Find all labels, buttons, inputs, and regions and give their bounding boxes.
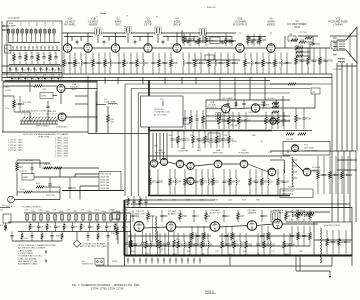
- tuning slug SL3: [28, 117, 31, 121]
- switch contact: [53, 33, 55, 42]
- label row sound strip: [25, 210, 129, 214]
- capacitor C58: [194, 178, 197, 185]
- capacitor C34: [312, 57, 315, 64]
- svg-text:VOLTAGES AT 117V AC: VOLTAGES AT 117V AC: [18, 255, 42, 258]
- wire: [8, 221, 131, 223]
- wire: [14, 199, 60, 201]
- tuner component: [18, 77, 20, 81]
- left strip labels: [0, 210, 4, 228]
- resistor R7: [205, 36, 208, 43]
- tuner coil L7: [35, 30, 38, 34]
- svg-text:5: 5: [23, 45, 24, 47]
- wire: [128, 235, 211, 237]
- disc element E5: [54, 215, 57, 220]
- svg-text:10: 10: [12, 53, 14, 55]
- resistor R33: [13, 101, 16, 108]
- svg-text:220: 220: [19, 74, 22, 76]
- inductor L15: [292, 157, 294, 187]
- svg-text:1K: 1K: [180, 139, 183, 141]
- wire: [131, 203, 350, 205]
- tuning slug SL5: [34, 117, 37, 121]
- capacitor C27: [199, 60, 202, 67]
- wire: [337, 65, 357, 67]
- tube V8: [57, 85, 65, 93]
- wire: [208, 36, 232, 38]
- wire: [32, 191, 60, 193]
- svg-text:L24: L24: [312, 91, 315, 93]
- svg-text:.05: .05: [46, 78, 49, 80]
- label V18 6AQ5: [209, 209, 221, 214]
- svg-text:T2: T2: [126, 16, 128, 18]
- wire: [311, 170, 318, 172]
- tuning slug SL7: [40, 117, 43, 121]
- svg-text:ION TRAP: ION TRAP: [333, 68, 343, 71]
- antenna terminal: [3, 25, 5, 27]
- svg-text:VERT HOLD: VERT HOLD: [282, 191, 294, 193]
- bus to sync: [62, 190, 124, 192]
- svg-text:.01: .01: [116, 227, 119, 229]
- resistor R21: [170, 60, 173, 67]
- tube V11: [251, 104, 259, 112]
- resistor R31: [291, 39, 298, 41]
- resistor R4: [49, 55, 52, 61]
- capacitor C85: [125, 240, 128, 247]
- wire: [152, 47, 173, 49]
- svg-text:T3: T3: [156, 17, 158, 19]
- wire: [20, 123, 58, 125]
- audio labels: [128, 236, 181, 251]
- svg-text:R43: R43: [46, 211, 50, 213]
- hatch component: [133, 258, 135, 264]
- small box cluster: [184, 118, 190, 124]
- wire: [202, 36, 204, 43]
- resistor R64: [184, 178, 187, 185]
- resistor R82: [177, 241, 180, 248]
- resistor R112: [80, 224, 83, 229]
- wire: [275, 47, 292, 49]
- capacitor C56: [221, 136, 224, 143]
- capacitor C46: [270, 117, 273, 124]
- svg-text:1K: 1K: [208, 216, 211, 218]
- tuner coil L10: [48, 30, 51, 34]
- wire: [181, 78, 183, 85]
- vert osc box: [280, 189, 313, 198]
- svg-text:.01: .01: [27, 74, 30, 76]
- wire: [0, 207, 10, 209]
- capacitor C95: [30, 234, 33, 239]
- wire: [270, 150, 356, 152]
- svg-text:470K: 470K: [198, 141, 203, 143]
- tuner coil L4: [21, 30, 24, 34]
- resistor R118: [97, 234, 100, 239]
- wire: [107, 242, 109, 266]
- ground: [45, 250, 48, 253]
- wire: [75, 95, 88, 97]
- sound strip row2: [29, 222, 31, 224]
- resistor R56: [298, 133, 306, 135]
- tuner component: [52, 67, 54, 72]
- wire: [219, 78, 221, 101]
- inductor L7: [215, 60, 216, 67]
- wire: [246, 36, 266, 38]
- resistor R37: [54, 167, 62, 169]
- svg-text:470: 470: [43, 74, 46, 76]
- svg-text:C1: C1: [20, 25, 22, 27]
- svg-text:0000 000: 0000 000: [101, 182, 111, 184]
- capacitor C50: [274, 102, 277, 106]
- capacitor C71: [256, 241, 259, 248]
- sync coupling box: [208, 133, 220, 142]
- resistor R50: [288, 83, 296, 85]
- wire: [96, 265, 125, 267]
- resistor R32: [305, 37, 312, 39]
- wire: [29, 82, 31, 92]
- switch contact: [26, 33, 28, 42]
- resistor R99: [297, 233, 300, 240]
- svg-text:AUDIO OUT: AUDIO OUT: [209, 211, 221, 214]
- wire: [15, 162, 50, 164]
- wire: [142, 78, 144, 85]
- wire: [104, 78, 106, 85]
- resistor R55: [286, 133, 294, 135]
- wire: [351, 63, 353, 151]
- resistor R63: [169, 178, 172, 185]
- coupling capacitor C13: [229, 41, 232, 43]
- resistor R59: [204, 136, 207, 143]
- wire: [298, 35, 318, 37]
- svg-text:RECTIFIER: RECTIFIER: [273, 212, 284, 214]
- restorer labels: [296, 46, 306, 62]
- svg-text:SEE PAGE 12 FOR: SEE PAGE 12 FOR: [18, 260, 38, 263]
- wire: [175, 226, 211, 228]
- resistor R35: [16, 164, 19, 171]
- deflection yoke plug: [271, 211, 280, 222]
- inductor L20: [150, 241, 151, 248]
- peaking coil box: [205, 55, 214, 60]
- svg-text:R55: R55: [154, 146, 157, 148]
- svg-text:C58: C58: [24, 238, 28, 240]
- resistor R14: [63, 60, 66, 67]
- svg-text:9: 9: [42, 114, 43, 116]
- tube V7: [267, 44, 275, 52]
- label V3B: [70, 84, 78, 91]
- svg-text:IF OUTPUT: IF OUTPUT: [233, 23, 247, 27]
- resistor R3: [37, 55, 40, 61]
- label V9B: [238, 150, 250, 155]
- inductor L24: [270, 241, 271, 248]
- label V15: [328, 17, 348, 27]
- wire: [16, 174, 18, 196]
- wire: [59, 187, 61, 200]
- label HORIZ AFC: [56, 126, 68, 129]
- svg-text:R49: R49: [88, 211, 92, 213]
- wire: [295, 256, 297, 272]
- tuner coil L2: [12, 30, 15, 34]
- resistor R40: [107, 115, 110, 122]
- svg-text:WIDTH: WIDTH: [288, 187, 295, 189]
- resistor R58: [192, 136, 195, 143]
- resistor R49: [263, 102, 266, 106]
- capacitor C84: [344, 239, 347, 246]
- inductor L1: [338, 58, 345, 59]
- trap L24: [311, 88, 320, 94]
- tuner component: [31, 77, 33, 81]
- inductor L13: [236, 178, 237, 185]
- label T3: [280, 158, 283, 160]
- wire: [195, 78, 197, 85]
- label V13 damper: [312, 167, 321, 172]
- wire: [303, 51, 310, 53]
- svg-text:NOTE: ALL: NOTE: ALL: [154, 108, 165, 111]
- wire: [88, 133, 149, 135]
- disc element E2: [33, 215, 36, 220]
- svg-text:470K: 470K: [20, 189, 25, 191]
- coupling capacitor C6: [76, 41, 79, 43]
- wire: [24, 212, 131, 214]
- svg-text:8: 8: [39, 114, 40, 116]
- wire: [75, 103, 88, 105]
- capacitor C42: [195, 116, 198, 123]
- svg-text:4.5MC TRAP: 4.5MC TRAP: [104, 101, 116, 104]
- trap box: [40, 93, 53, 99]
- wire: [147, 33, 149, 44]
- wire: [162, 101, 164, 107]
- sound takeoff box: [22, 174, 34, 181]
- capacitor C16: [188, 36, 191, 43]
- tube V17: [187, 162, 194, 169]
- svg-text:100K: 100K: [232, 141, 237, 143]
- wire: [2, 80, 97, 82]
- wire: [192, 59, 240, 61]
- tube V27: [273, 219, 283, 229]
- wire: [4, 29, 9, 31]
- svg-text:R80 1M: R80 1M: [143, 246, 151, 248]
- wire: [349, 151, 351, 222]
- wire: [336, 63, 338, 151]
- capacitor C63: [144, 199, 147, 205]
- wire: [29, 112, 31, 121]
- capacitor C36: [18, 101, 21, 108]
- capacitor C98: [106, 234, 109, 239]
- capacitor C70: [226, 241, 229, 248]
- svg-text:AGC: AGC: [36, 182, 41, 185]
- label V7A: [207, 101, 218, 109]
- wire: [3, 85, 34, 87]
- svg-text:.01: .01: [82, 227, 85, 229]
- capacitor C68: [163, 241, 166, 248]
- svg-text:68K: 68K: [164, 216, 169, 218]
- capacitor C92: [105, 224, 108, 229]
- hatch component: [199, 258, 201, 264]
- disc element E7: [68, 215, 71, 220]
- coupling capacitor C11: [195, 41, 198, 43]
- resistor R91: [179, 213, 182, 220]
- hatch component: [163, 258, 165, 264]
- wire: [331, 74, 333, 150]
- hatch component: [151, 258, 153, 264]
- tuner component: [40, 67, 42, 72]
- svg-text:0000 000: 0000 000: [101, 188, 111, 190]
- tuning slug SL9: [46, 117, 49, 121]
- wire: [256, 224, 273, 226]
- svg-text:10: 10: [36, 53, 38, 55]
- IF transformer T5: [216, 112, 222, 119]
- svg-text:15.7KV: 15.7KV: [300, 32, 307, 34]
- wire: [296, 270, 330, 272]
- svg-text:C512: C512: [109, 210, 114, 212]
- channel numbers: [21, 114, 57, 116]
- resistor R5: [198, 38, 201, 44]
- capacitor C60: [254, 178, 257, 185]
- capacitor C38: [68, 185, 71, 192]
- wire: [230, 107, 251, 110]
- wire: [96, 81, 98, 133]
- coupling capacitor C7: [103, 41, 106, 43]
- disc element E3: [40, 215, 43, 220]
- IF transformer T4: [200, 28, 206, 35]
- wire: [75, 173, 99, 175]
- wire: [168, 162, 177, 164]
- svg-text:10K: 10K: [145, 63, 150, 65]
- svg-text:C52: C52: [39, 210, 43, 212]
- wire: [303, 55, 310, 57]
- svg-text:15: 15: [55, 45, 57, 47]
- wire: [167, 37, 169, 42]
- capacitor C5: [230, 38, 233, 44]
- inductor L3: [81, 60, 82, 67]
- switch contact: [21, 33, 23, 42]
- svg-text:AF AMPL: AF AMPL: [168, 212, 177, 215]
- resistor R94: [285, 213, 288, 220]
- wire: [300, 47, 330, 49]
- disc element E13: [110, 215, 113, 220]
- resistor R51: [272, 102, 279, 104]
- coupling capacitor C15: [257, 41, 260, 43]
- disc element E8: [75, 215, 78, 220]
- resistor R113: [97, 224, 100, 229]
- svg-text:10K: 10K: [232, 182, 237, 184]
- svg-text:R31 2.2M: R31 2.2M: [46, 195, 55, 197]
- svg-text:1M: 1M: [197, 63, 200, 65]
- wire: [193, 37, 195, 42]
- capacitor C19: [68, 60, 71, 67]
- svg-text:.05: .05: [20, 78, 23, 80]
- wire: [53, 95, 57, 97]
- wire: [17, 159, 40, 161]
- svg-text:FUSE: FUSE: [112, 261, 118, 263]
- tuning slug SL11: [53, 117, 56, 121]
- wire: [71, 37, 73, 42]
- wire: [42, 167, 99, 169]
- horiz output transformer T4: [314, 222, 352, 256]
- CRT pin: [333, 41, 337, 43]
- svg-text:6AL5: 6AL5: [197, 149, 201, 152]
- label C41: [197, 148, 201, 152]
- wire: [117, 232, 119, 245]
- svg-text:OSC: OSC: [115, 23, 121, 27]
- tuner component: [33, 67, 35, 72]
- wire: [163, 36, 198, 38]
- tuner coil L1: [7, 30, 10, 34]
- flyback taps: [293, 159, 297, 161]
- svg-text:.047: .047: [72, 188, 77, 190]
- svg-text:HORIZ AFC: HORIZ AFC: [56, 126, 68, 129]
- svg-text:1ST IF: 1ST IF: [144, 23, 152, 27]
- svg-text:DAMPER: DAMPER: [248, 211, 257, 214]
- svg-text:M1: M1: [5, 49, 8, 51]
- tuner coil L11: [53, 30, 56, 34]
- tube V4: [144, 44, 152, 52]
- svg-text:V13 6W4: V13 6W4: [312, 167, 321, 169]
- capacitor C76: [222, 213, 225, 220]
- capacitor C66: [346, 172, 349, 179]
- capacitor C1: [18, 55, 21, 61]
- tuner component: [15, 67, 17, 72]
- wire: [107, 122, 109, 134]
- label V20 5U4G: [273, 210, 284, 214]
- switch contact: [48, 33, 50, 42]
- label V16 6T8: [135, 211, 146, 215]
- resistor R80: [145, 241, 148, 248]
- wire: [103, 36, 126, 38]
- resistor R26: [262, 60, 265, 67]
- switch contact: [8, 33, 10, 42]
- label row sound strip 2: [31, 227, 128, 229]
- resistor R53: [272, 111, 279, 113]
- wire: [244, 47, 267, 49]
- svg-text:220: 220: [48, 70, 51, 72]
- inductor L17: [292, 212, 293, 216]
- resistor R69: [261, 178, 264, 185]
- capacitor C87: [167, 240, 170, 247]
- resistor R78: [309, 212, 312, 218]
- wire: [303, 47, 310, 49]
- wire: [3, 95, 14, 97]
- capacitor C80: [260, 233, 263, 240]
- tuner top text row: [20, 23, 54, 27]
- wire: [206, 32, 236, 34]
- svg-text:L21 TRANS: L21 TRANS: [222, 97, 233, 100]
- resistor R1: [13, 55, 16, 61]
- label V8B: [178, 148, 188, 153]
- wire: [222, 163, 240, 165]
- switch contact: [35, 33, 37, 42]
- wire: [306, 41, 312, 43]
- svg-text:PAGE 11: PAGE 11: [205, 291, 215, 294]
- capacitor C22: [117, 60, 120, 67]
- tuner component: [9, 67, 11, 72]
- bus wire horizontal: [270, 130, 312, 132]
- capacitor C40: [48, 181, 51, 188]
- capacitor C45: [244, 117, 247, 124]
- capacitor C30: [255, 60, 258, 67]
- wire: [128, 245, 310, 247]
- capacitor C18: [252, 37, 255, 44]
- hatch component: [187, 258, 189, 264]
- wire: [181, 30, 183, 41]
- svg-text:C3: C3: [36, 25, 38, 27]
- resistor R66: [212, 178, 215, 185]
- capacitor C89: [54, 224, 57, 229]
- svg-text:470: 470: [59, 78, 62, 80]
- hatch component: [145, 258, 147, 264]
- wire: [152, 133, 154, 160]
- diode video: [222, 40, 230, 44]
- inductor L14: [268, 178, 269, 185]
- tuner coil L3: [16, 30, 19, 34]
- svg-text:1 1954 : 1954: 1 1954 : 1954: [55, 156, 69, 158]
- svg-text:C58: C58: [81, 210, 85, 212]
